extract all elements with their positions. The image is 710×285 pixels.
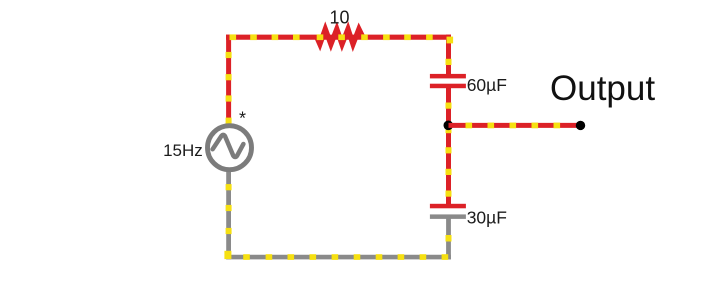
wire right lower vertical (capacitor C2 to bottom-right corner, gray) [446, 218, 452, 259]
wire top (node A top-left corner to node B top-right corner) [226, 35, 451, 40]
wire right upper vertical (top-right corner to capacitor C1) [446, 35, 452, 76]
svg-text:*: * [239, 109, 246, 129]
wire left lower vertical (source V1 bottom to bottom-left corner, gray) [224, 169, 231, 259]
svg-text:60µF: 60µF [467, 75, 507, 95]
wire output horizontal (node C to output terminal) [449, 123, 581, 129]
svg-text:10: 10 [330, 8, 350, 28]
junction node C (dot) [444, 121, 454, 131]
svg-text:30µF: 30µF [467, 208, 507, 228]
wire left upper vertical (top-left corner down to source V1 top) [226, 35, 232, 124]
capacitor C2 30uF top plate (red) [430, 204, 466, 209]
yellow current dashes on top wire [230, 34, 454, 43]
capacitor C2 30uF bottom plate (gray) [430, 214, 466, 219]
AC source V1 sine wave [213, 135, 244, 157]
svg-text:Output: Output [550, 69, 655, 108]
wire bottom horizontal (gray return wire) [226, 254, 451, 260]
wire right vertical (junction node C to capacitor C2) [446, 125, 452, 206]
wire right mid vertical (capacitor C1 to junction node C) [446, 86, 452, 125]
resistor R1 zigzag body [317, 29, 363, 44]
output terminal node (dot) [576, 121, 585, 130]
AC source V1 circle [208, 126, 252, 170]
capacitor C1 60uF plates [430, 74, 466, 88]
svg-text:15Hz: 15Hz [163, 141, 203, 160]
